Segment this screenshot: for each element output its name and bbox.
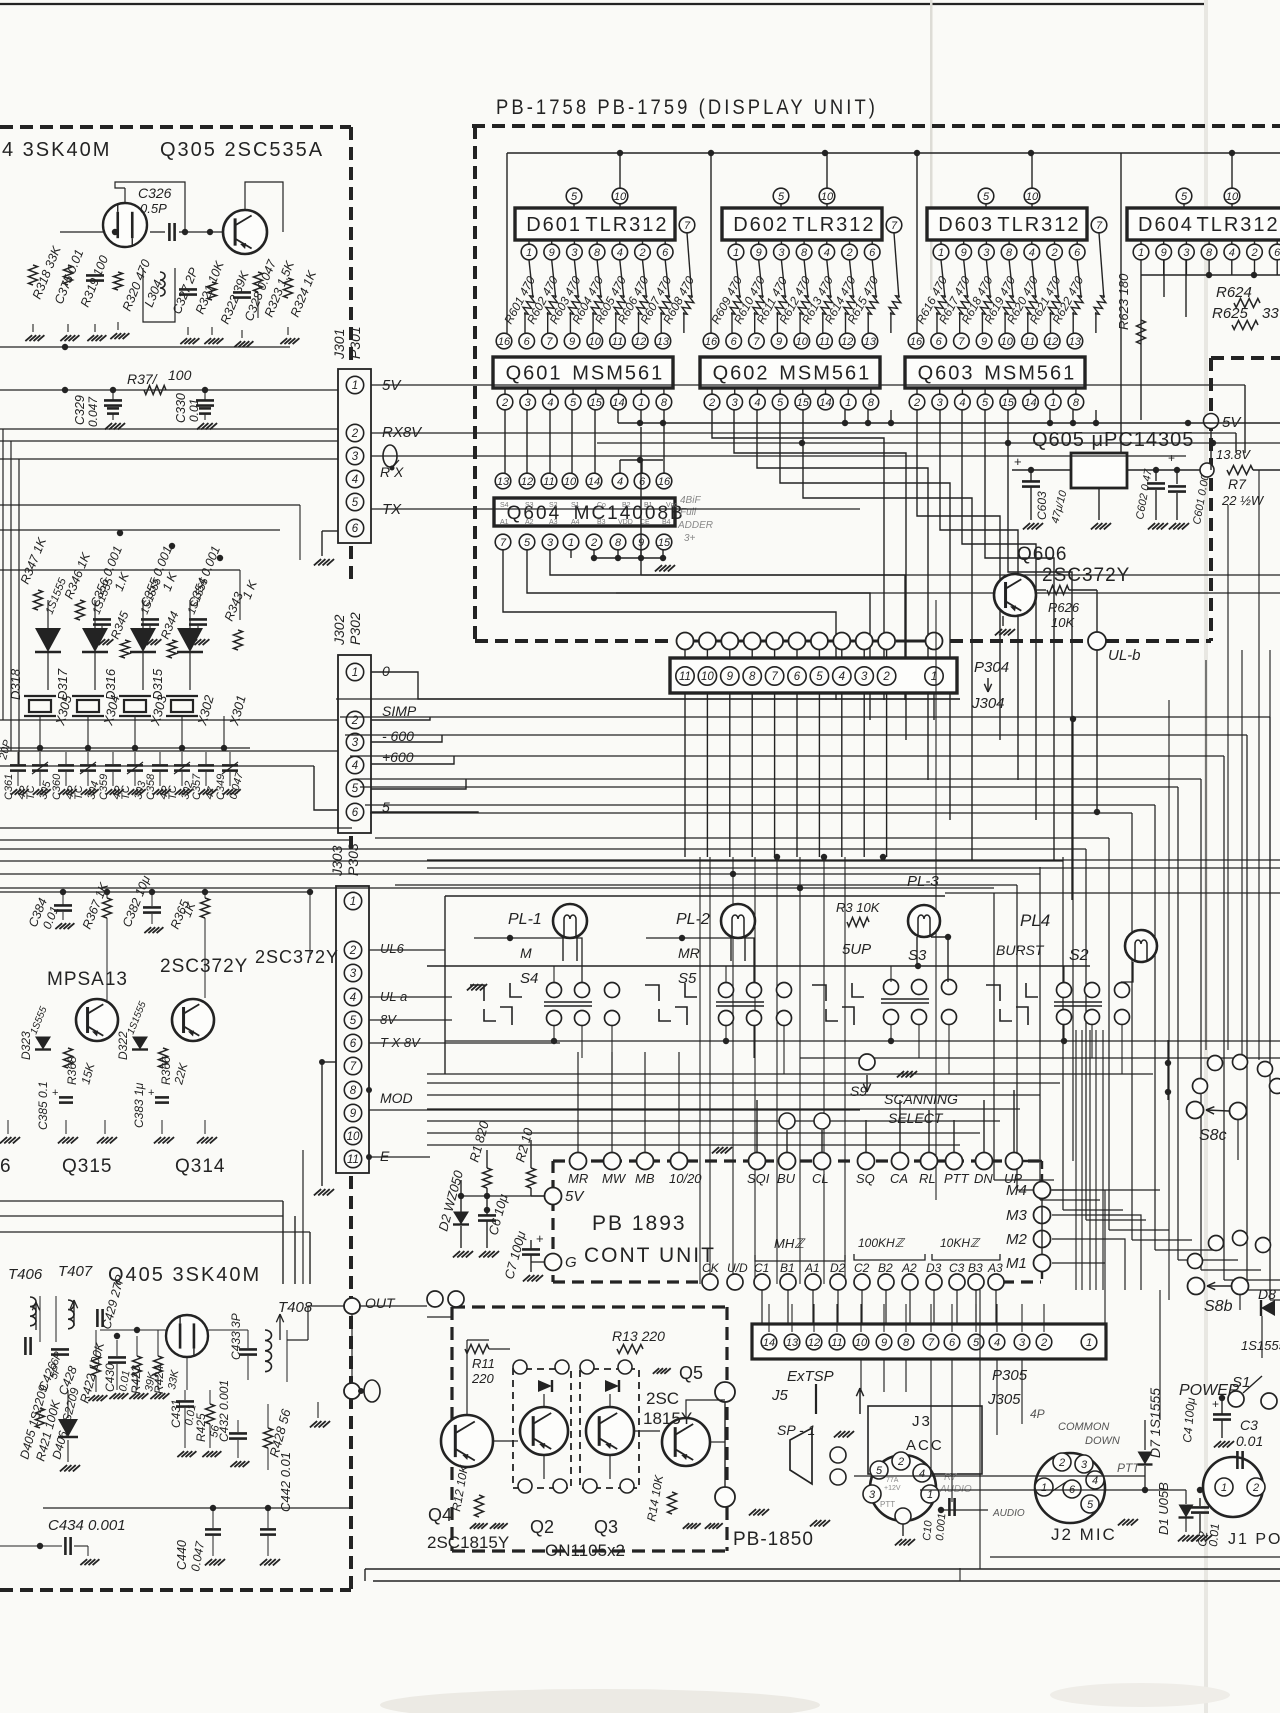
svg-text:6: 6 (0, 1156, 11, 1177)
svg-text:P301: P301 (347, 326, 363, 359)
svg-text:5: 5 (777, 397, 784, 409)
svg-text:9: 9 (881, 1337, 887, 1349)
svg-text:CK: CK (702, 1261, 720, 1275)
svg-text:8: 8 (1206, 247, 1213, 259)
svg-text:VDD: VDD (618, 519, 633, 526)
svg-text:14: 14 (819, 397, 831, 409)
svg-text:1: 1 (1086, 1337, 1092, 1349)
svg-text:D322: D322 (116, 1031, 130, 1060)
svg-text:OUT: OUT (365, 1295, 396, 1311)
svg-text:5: 5 (816, 671, 823, 683)
svg-text:0.047: 0.047 (86, 396, 100, 427)
svg-text:1: 1 (350, 896, 356, 908)
svg-text:10: 10 (1026, 191, 1039, 203)
svg-text:1: 1 (352, 667, 358, 679)
svg-text:15: 15 (797, 397, 810, 409)
svg-text:E: E (380, 1148, 390, 1164)
svg-text:6: 6 (662, 247, 669, 259)
svg-text:MW: MW (602, 1171, 627, 1186)
svg-text:10: 10 (347, 1131, 360, 1143)
svg-text:C434 0.001: C434 0.001 (48, 1517, 126, 1534)
svg-text:Q405 3SK40M: Q405 3SK40M (108, 1264, 261, 1286)
svg-text:SELECT: SELECT (888, 1110, 944, 1126)
svg-text:B1: B1 (780, 1261, 795, 1275)
svg-text:7: 7 (500, 537, 507, 549)
svg-text:Q2: Q2 (530, 1517, 554, 1537)
svg-text:5UP: 5UP (842, 941, 871, 958)
svg-text:10: 10 (1001, 336, 1014, 348)
svg-text:10: 10 (701, 671, 714, 683)
svg-text:8: 8 (1006, 247, 1013, 259)
svg-text:9: 9 (350, 1108, 357, 1120)
svg-text:6: 6 (639, 476, 646, 488)
svg-text:R3 10K: R3 10K (836, 900, 881, 915)
svg-text:8: 8 (903, 1337, 910, 1349)
svg-text:5: 5 (973, 1337, 980, 1349)
svg-text:6: 6 (869, 247, 876, 259)
svg-text:T406: T406 (8, 1266, 43, 1283)
svg-text:Q605 μPC14305: Q605 μPC14305 (1032, 429, 1194, 451)
svg-text:12: 12 (841, 336, 853, 348)
svg-text:6: 6 (949, 1337, 956, 1349)
svg-text:9: 9 (981, 336, 987, 348)
svg-text:8: 8 (661, 397, 668, 409)
svg-text:BURST: BURST (996, 942, 1045, 958)
svg-text:CA: CA (890, 1171, 908, 1186)
svg-text:B2: B2 (878, 1261, 893, 1275)
svg-text:J3: J3 (912, 1413, 932, 1430)
svg-text:C360: C360 (51, 773, 63, 800)
svg-text:2: 2 (590, 537, 597, 549)
svg-text:TLR312: TLR312 (997, 214, 1080, 236)
svg-text:9: 9 (1161, 247, 1167, 259)
svg-text:8: 8 (868, 397, 875, 409)
svg-text:MHℤ: MHℤ (774, 1236, 806, 1251)
svg-text:D601: D601 (526, 214, 582, 236)
svg-text:1: 1 (352, 380, 358, 392)
svg-text:J304: J304 (971, 695, 1005, 712)
svg-text:100: 100 (168, 367, 192, 383)
svg-text:11: 11 (1024, 336, 1035, 348)
svg-text:Q602: Q602 (713, 363, 770, 385)
svg-text:0.01: 0.01 (1206, 1523, 1222, 1547)
svg-text:10: 10 (855, 1337, 868, 1349)
svg-text:2SC: 2SC (646, 1389, 679, 1408)
svg-text:C10: C10 (921, 1519, 935, 1541)
svg-text:+600: +600 (382, 749, 414, 765)
svg-text:2: 2 (1058, 1457, 1065, 1469)
svg-text:R11: R11 (472, 1356, 495, 1371)
svg-text:4: 4 (547, 397, 553, 409)
svg-text:3: 3 (525, 397, 532, 409)
svg-text:M4: M4 (1006, 1182, 1027, 1199)
svg-text:R623 180: R623 180 (1116, 273, 1131, 330)
svg-text:4: 4 (617, 476, 623, 488)
svg-text:16: 16 (910, 336, 923, 348)
svg-text:5: 5 (982, 397, 989, 409)
svg-text:Q4: Q4 (428, 1505, 452, 1525)
svg-text:5: 5 (352, 783, 359, 795)
svg-text:+12V: +12V (884, 1485, 901, 1492)
svg-text:M3: M3 (1006, 1207, 1027, 1224)
svg-text:D8: D8 (1258, 1286, 1276, 1302)
svg-text:MPSA13: MPSA13 (47, 969, 128, 990)
svg-text:Q315: Q315 (62, 1156, 112, 1177)
svg-text:2: 2 (913, 397, 920, 409)
svg-text:C433 3P: C433 3P (229, 1313, 243, 1360)
svg-text:M1: M1 (1006, 1255, 1027, 1272)
svg-text:11: 11 (819, 336, 830, 348)
svg-text:11: 11 (347, 1154, 359, 1166)
svg-text:3: 3 (732, 397, 739, 409)
svg-text:13: 13 (1069, 336, 1082, 348)
svg-text:C385 0.1: C385 0.1 (36, 1081, 50, 1130)
svg-text:3: 3 (861, 671, 868, 683)
svg-text:2: 2 (351, 428, 359, 440)
svg-text:S1: S1 (571, 502, 580, 509)
svg-text:P302: P302 (347, 612, 363, 645)
svg-text:6: 6 (794, 671, 801, 683)
svg-text:T407: T407 (58, 1263, 93, 1280)
svg-text:7: 7 (771, 671, 778, 683)
svg-text:+: + (536, 1231, 544, 1246)
svg-text:B3: B3 (597, 519, 606, 526)
svg-text:5: 5 (571, 191, 578, 203)
svg-text:16: 16 (498, 336, 511, 348)
svg-text:ON1105x2: ON1105x2 (545, 1541, 625, 1560)
svg-text:2: 2 (501, 397, 508, 409)
svg-text:2: 2 (349, 945, 357, 957)
svg-text:R626: R626 (1048, 600, 1080, 615)
svg-text:A3: A3 (987, 1261, 1003, 1275)
svg-text:+: + (1168, 451, 1175, 465)
svg-text:8: 8 (1073, 397, 1080, 409)
svg-text:2: 2 (1040, 1337, 1047, 1349)
svg-text:1: 1 (1221, 1482, 1227, 1494)
svg-text:2: 2 (638, 247, 645, 259)
svg-text:6: 6 (1074, 247, 1081, 259)
svg-text:2: 2 (1050, 247, 1057, 259)
svg-text:2SC372Y: 2SC372Y (1042, 565, 1130, 586)
svg-text:3: 3 (778, 247, 785, 259)
svg-text:1: 1 (568, 537, 574, 549)
svg-text:D603: D603 (938, 214, 994, 236)
svg-text:CL: CL (812, 1171, 829, 1186)
svg-text:10/20: 10/20 (669, 1171, 702, 1186)
svg-text:SQI: SQI (747, 1171, 770, 1186)
svg-text:5V: 5V (565, 1188, 585, 1205)
svg-text:13: 13 (497, 476, 510, 488)
svg-text:0: 0 (382, 663, 390, 679)
svg-text:D7 1S1555: D7 1S1555 (1147, 1388, 1163, 1458)
svg-text:77A: 77A (886, 1477, 899, 1484)
svg-text:220: 220 (471, 1371, 494, 1386)
svg-text:C432 0.001: C432 0.001 (217, 1380, 231, 1442)
svg-text:7: 7 (891, 220, 898, 232)
svg-text:ExTSP: ExTSP (787, 1368, 834, 1385)
svg-text:4: 4 (919, 1468, 925, 1480)
svg-text:14: 14 (1024, 397, 1036, 409)
svg-text:Vcc: Vcc (666, 502, 678, 509)
svg-text:16: 16 (705, 336, 718, 348)
svg-text:4: 4 (1092, 1475, 1098, 1487)
svg-text:B3: B3 (968, 1261, 983, 1275)
svg-text:2: 2 (1250, 247, 1257, 259)
svg-text:DN: DN (974, 1171, 993, 1186)
svg-text:D604: D604 (1138, 214, 1194, 236)
svg-text:S4: S4 (520, 970, 538, 987)
svg-text:5: 5 (778, 191, 785, 203)
svg-text:4 3SK40M: 4 3SK40M (2, 139, 111, 161)
svg-text:MSM561: MSM561 (572, 363, 664, 385)
svg-text:15: 15 (1002, 397, 1015, 409)
svg-text:1S1555: 1S1555 (1241, 1338, 1280, 1353)
svg-text:RL: RL (919, 1171, 936, 1186)
svg-text:10: 10 (1226, 191, 1239, 203)
svg-text:R13 220: R13 220 (612, 1328, 665, 1344)
svg-text:+: + (148, 1087, 154, 1099)
svg-text:S2: S2 (549, 502, 558, 509)
svg-text:33: 33 (1262, 305, 1279, 322)
svg-text:1: 1 (1050, 397, 1056, 409)
svg-text:1: 1 (845, 397, 851, 409)
svg-text:UL6: UL6 (380, 941, 405, 956)
svg-text:8: 8 (749, 671, 756, 683)
svg-text:5: 5 (983, 191, 990, 203)
svg-text:3+: 3+ (684, 533, 696, 544)
svg-text:C326: C326 (138, 185, 172, 201)
svg-text:D318: D318 (8, 668, 23, 700)
svg-text:4: 4 (959, 397, 965, 409)
svg-text:B1: B1 (644, 502, 653, 509)
svg-text:PB-1850: PB-1850 (733, 1529, 814, 1550)
svg-text:TLR312: TLR312 (1197, 214, 1280, 236)
svg-text:TLR312: TLR312 (585, 214, 668, 236)
svg-text:8: 8 (615, 537, 622, 549)
svg-text:13: 13 (864, 336, 877, 348)
svg-text:S2: S2 (1069, 947, 1089, 964)
svg-text:8: 8 (801, 247, 808, 259)
svg-text:R37/: R37/ (127, 371, 159, 387)
svg-text:9: 9 (569, 336, 575, 348)
svg-text:PTT: PTT (880, 1500, 895, 1509)
svg-text:4: 4 (617, 247, 623, 259)
svg-text:5: 5 (1181, 191, 1188, 203)
svg-text:4: 4 (994, 1337, 1000, 1349)
svg-text:14: 14 (588, 476, 600, 488)
svg-text:J5: J5 (771, 1387, 789, 1404)
svg-text:MSM561: MSM561 (779, 363, 871, 385)
svg-text:6: 6 (731, 336, 738, 348)
svg-text:C357: C357 (191, 773, 203, 800)
svg-text:14: 14 (612, 397, 624, 409)
svg-text:7: 7 (350, 1061, 357, 1073)
svg-text:5: 5 (876, 1465, 883, 1477)
svg-text:12: 12 (521, 476, 533, 488)
svg-text:9: 9 (961, 247, 967, 259)
svg-text:1815Y: 1815Y (643, 1409, 692, 1428)
svg-text:12: 12 (808, 1337, 820, 1349)
svg-text:0.001: 0.001 (934, 1513, 948, 1541)
svg-text:A3: A3 (549, 519, 558, 526)
svg-text:Q601: Q601 (506, 363, 563, 385)
svg-text:S9: S9 (850, 1083, 867, 1099)
svg-text:6: 6 (936, 336, 943, 348)
svg-text:0.5P: 0.5P (140, 201, 167, 216)
svg-text:PL-3: PL-3 (907, 873, 939, 890)
svg-text:COMMON: COMMON (1058, 1421, 1109, 1433)
svg-text:1: 1 (1041, 1482, 1047, 1494)
svg-text:16: 16 (658, 476, 671, 488)
svg-text:SQ: SQ (856, 1171, 875, 1186)
svg-text:10: 10 (589, 336, 602, 348)
svg-text:13: 13 (786, 1337, 799, 1349)
svg-text:ADDER: ADDER (677, 520, 713, 531)
svg-text:J301: J301 (331, 329, 347, 360)
svg-text:1: 1 (526, 247, 532, 259)
svg-text:C349: C349 (215, 774, 227, 800)
svg-text:Q305 2SC535A: Q305 2SC535A (160, 139, 324, 161)
svg-text:C440: C440 (175, 1540, 189, 1570)
svg-text:C603: C603 (1035, 491, 1049, 520)
svg-text:100KHℤ: 100KHℤ (858, 1236, 906, 1250)
svg-text:3: 3 (937, 397, 944, 409)
svg-text:BU: BU (777, 1171, 796, 1186)
svg-text:B4: B4 (662, 519, 671, 526)
svg-text:4: 4 (352, 760, 358, 772)
svg-text:3: 3 (1081, 1459, 1088, 1471)
svg-text:0.01: 0.01 (187, 399, 201, 422)
svg-text:6: 6 (524, 336, 531, 348)
svg-text:4: 4 (824, 247, 830, 259)
svg-text:6: 6 (350, 1038, 357, 1050)
svg-text:1: 1 (927, 1489, 933, 1501)
svg-text:13: 13 (657, 336, 670, 348)
svg-text:G: G (565, 1254, 577, 1271)
svg-text:R7: R7 (944, 1472, 957, 1483)
svg-text:4: 4 (839, 671, 845, 683)
svg-text:8: 8 (350, 1085, 357, 1097)
svg-text:7: 7 (958, 336, 965, 348)
svg-text:13.8V: 13.8V (1216, 447, 1251, 462)
svg-text:S3: S3 (525, 502, 534, 509)
svg-text:C430: C430 (103, 1363, 117, 1392)
svg-text:P303: P303 (345, 843, 361, 876)
svg-text:6: 6 (1274, 247, 1280, 259)
svg-text:PTT: PTT (944, 1171, 970, 1186)
svg-text:S8b: S8b (1204, 1298, 1233, 1315)
svg-text:10: 10 (564, 476, 577, 488)
svg-text:10: 10 (821, 191, 834, 203)
svg-text:PB 1893: PB 1893 (592, 1212, 687, 1235)
svg-text:C358: C358 (145, 773, 157, 800)
svg-text:7: 7 (753, 336, 760, 348)
svg-text:C361: C361 (3, 774, 15, 800)
svg-text:12: 12 (634, 336, 646, 348)
svg-text:6: 6 (352, 523, 359, 535)
svg-text:10KHℤ: 10KHℤ (940, 1236, 981, 1250)
svg-text:7: 7 (928, 1337, 935, 1349)
svg-text:D323: D323 (19, 1031, 33, 1060)
svg-text:Q314: Q314 (175, 1156, 225, 1177)
svg-text:5: 5 (1087, 1499, 1094, 1511)
svg-text:S4: S4 (500, 502, 509, 509)
svg-text:AUDIO: AUDIO (992, 1508, 1025, 1519)
svg-text:TLR312: TLR312 (792, 214, 875, 236)
svg-text:2: 2 (1252, 1482, 1259, 1494)
svg-text:15: 15 (590, 397, 603, 409)
svg-text:4: 4 (1029, 247, 1035, 259)
svg-text:9: 9 (756, 247, 762, 259)
svg-text:C3: C3 (949, 1261, 965, 1275)
svg-text:C3: C3 (1240, 1417, 1258, 1433)
svg-text:+: + (1212, 1397, 1219, 1411)
svg-text:2SC1815Y: 2SC1815Y (427, 1533, 509, 1552)
svg-text:PB-1758 PB-1759 (DISPLAY U: PB-1758 PB-1759 (DISPLAY UNIT) (496, 96, 878, 119)
svg-text:6: 6 (352, 807, 359, 819)
svg-text:14: 14 (763, 1337, 775, 1349)
svg-text:9: 9 (727, 671, 734, 683)
svg-text:UL-b: UL-b (1108, 647, 1141, 664)
svg-text:Q5: Q5 (679, 1363, 703, 1383)
svg-text:PTT: PTT (1117, 1461, 1141, 1475)
svg-text:Co: Co (597, 502, 606, 509)
svg-text:2: 2 (897, 1456, 904, 1468)
svg-text:DOWN: DOWN (1085, 1435, 1120, 1447)
svg-text:MSM561: MSM561 (984, 363, 1076, 385)
svg-text:J305: J305 (987, 1391, 1021, 1408)
svg-text:C2: C2 (854, 1261, 870, 1275)
svg-text:0.01: 0.01 (1236, 1433, 1263, 1449)
svg-text:C442 0.01: C442 0.01 (278, 1452, 293, 1512)
svg-text:1: 1 (938, 247, 944, 259)
svg-text:U/D: U/D (727, 1261, 748, 1275)
svg-text:S5: S5 (678, 970, 697, 987)
svg-text:11: 11 (543, 476, 554, 488)
svg-text:1: 1 (638, 397, 644, 409)
svg-text:J302: J302 (331, 614, 347, 646)
svg-text:3: 3 (983, 247, 990, 259)
svg-text:R425: R425 (194, 1413, 208, 1442)
svg-text:D602: D602 (733, 214, 789, 236)
svg-text:R624: R624 (1216, 284, 1252, 301)
svg-text:11: 11 (679, 671, 691, 683)
svg-text:3: 3 (547, 537, 554, 549)
svg-text:S8c: S8c (1199, 1127, 1227, 1144)
svg-text:7: 7 (1096, 220, 1103, 232)
svg-text:9: 9 (776, 336, 782, 348)
svg-text:3: 3 (571, 247, 578, 259)
svg-text:5: 5 (570, 397, 577, 409)
svg-text:3: 3 (352, 737, 359, 749)
svg-text:ACC: ACC (906, 1437, 944, 1454)
svg-text:Q603: Q603 (918, 363, 975, 385)
svg-text:5: 5 (352, 497, 359, 509)
svg-text:MR: MR (568, 1171, 588, 1186)
svg-text:3: 3 (1183, 247, 1190, 259)
svg-text:D3: D3 (926, 1261, 942, 1275)
svg-text:4: 4 (352, 474, 358, 486)
svg-text:4P: 4P (1030, 1407, 1045, 1421)
svg-text:5: 5 (350, 1015, 357, 1027)
svg-text:C383 1μ: C383 1μ (132, 1082, 146, 1128)
svg-text:A4: A4 (571, 519, 580, 526)
svg-text:10: 10 (796, 336, 809, 348)
svg-text:3: 3 (869, 1489, 876, 1501)
svg-text:C330: C330 (174, 393, 188, 423)
svg-text:MB: MB (635, 1171, 655, 1186)
svg-text:+: + (52, 1087, 58, 1099)
